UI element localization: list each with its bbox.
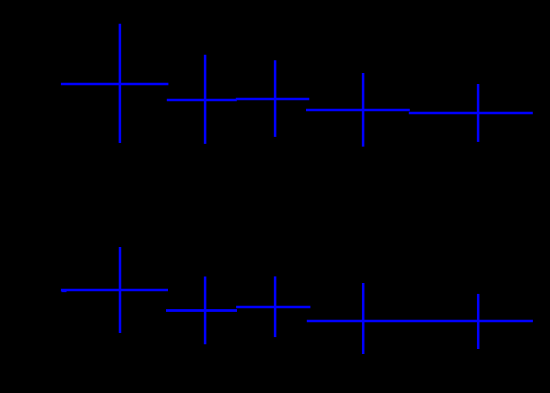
wire W7 (bottom bus segment 2)	[166, 309, 237, 312]
wire W1 (top bus segment 1)	[61, 83, 168, 86]
node N6 crosshair (bottom junction 1)	[119, 247, 122, 333]
node N5 crosshair (top junction 5)	[477, 84, 480, 142]
wire W2 (top bus segment 2)	[167, 99, 237, 102]
node N8 crosshair (bottom junction 3)	[274, 276, 277, 337]
wire W6a (pen hook at start of W6)	[62, 290, 67, 293]
node N9 crosshair (bottom junction 4)	[362, 283, 365, 354]
node N3 crosshair (top junction 3)	[274, 60, 277, 137]
node N10 crosshair (bottom junction 5)	[477, 294, 480, 349]
wire W9 (bottom bus segment 4-5)	[307, 320, 533, 323]
wire W8 (bottom bus segment 3)	[236, 306, 310, 309]
node N2 crosshair (top junction 2)	[204, 55, 207, 144]
node N7 crosshair (bottom junction 2)	[204, 277, 207, 345]
wire W5 (top bus segment 5)	[409, 112, 533, 115]
wire W4 (top bus segment 4)	[306, 109, 410, 112]
node N1 crosshair (top junction 1)	[119, 24, 122, 143]
node N4 crosshair (top junction 4)	[362, 73, 365, 147]
wire W6 (bottom bus segment 1)	[61, 289, 168, 292]
wire W3 (top bus segment 3)	[236, 98, 309, 101]
